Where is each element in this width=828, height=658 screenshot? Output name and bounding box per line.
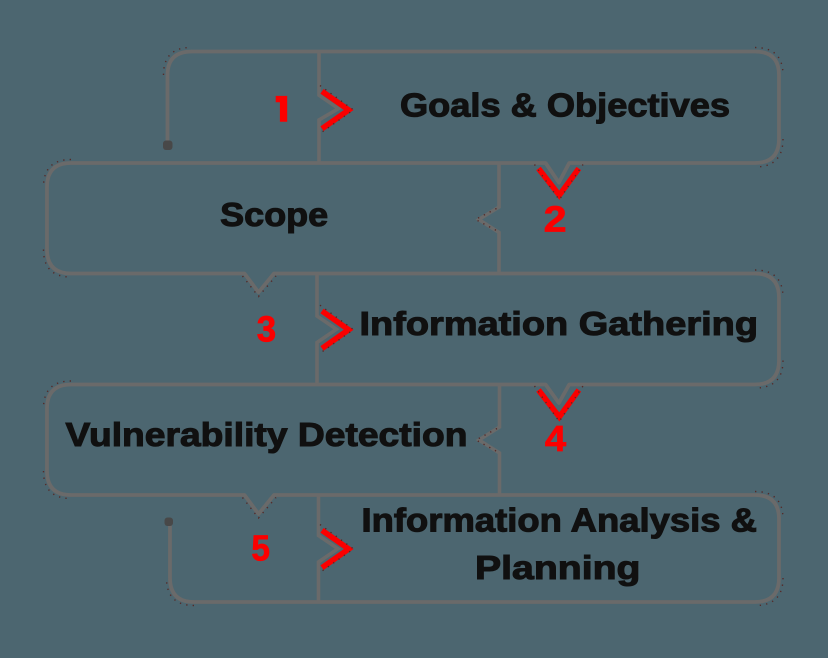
- sketch dots: red chevrons: [320, 86, 354, 134]
- svg-text:Vulnerability Detection: Vulnerability Detection: [66, 416, 468, 453]
- red chevron down row 2: [539, 169, 579, 196]
- divider row 1 with right notch: [319, 52, 339, 164]
- sketch dots: grey V notches: [243, 276, 277, 297]
- sketch dots: corner arcs: [164, 48, 192, 76]
- svg-text:Goals & Objectives: Goals & Objectives: [400, 87, 730, 124]
- svg-text:Planning: Planning: [475, 549, 641, 586]
- red chevron down row 4: [539, 390, 579, 417]
- divider row 5 with right notch: [319, 495, 339, 602]
- red chevron right row 3: [322, 311, 349, 348]
- endpoint blob row 5 left edge: [165, 518, 174, 527]
- svg-text:5: 5: [251, 528, 270, 569]
- svg-text:Information Gathering: Information Gathering: [360, 305, 759, 342]
- red chevron right row 1: [322, 91, 349, 128]
- sketch dots: divider left notches: [476, 209, 497, 231]
- divider row 3 with right notch: [317, 274, 337, 385]
- divider row 4 with left notch: [479, 385, 500, 496]
- red chevron right row 5: [322, 530, 349, 567]
- svg-text:3: 3: [257, 309, 276, 350]
- endpoint blob row 1 left edge: [163, 141, 173, 151]
- number 1 (custom glyph, no foot serif): [276, 96, 288, 122]
- wire: snake outline of all five rows: [47, 52, 779, 603]
- svg-text:Scope: Scope: [220, 196, 328, 233]
- svg-text:Information Analysis &: Information Analysis &: [362, 502, 758, 539]
- divider row 2 with left notch: [479, 163, 499, 274]
- svg-text:2: 2: [544, 199, 567, 240]
- svg-text:4: 4: [545, 418, 566, 459]
